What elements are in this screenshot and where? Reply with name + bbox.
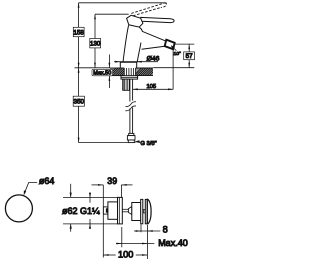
- faucet neck and spout top edge: [139, 27, 166, 41]
- dimension d62 arrows: [70, 184, 72, 198]
- faucet lever blade: [141, 17, 174, 22]
- dimension 158 line: [78, 3, 80, 68]
- counter hatched left: [108, 68, 131, 76]
- wire extension right shared: [146, 225, 148, 259]
- threaded shank in counter: [124, 68, 135, 76]
- hose break symbol: [125, 102, 136, 107]
- wire counter left extension: [75, 67, 111, 69]
- dimension 100: [103, 254, 115, 256]
- faucet handle knob: [127, 15, 143, 27]
- wire extension D62 bottom: [63, 223, 118, 225]
- svg-text:39: 39: [107, 176, 117, 186]
- svg-text:ø64: ø64: [39, 176, 55, 186]
- svg-text:Ø46: Ø46: [147, 55, 160, 62]
- faucet body left edge: [123, 25, 129, 62]
- svg-text:350: 350: [74, 99, 85, 106]
- wire extension D62 top: [63, 196, 118, 198]
- dimension 130 line: [94, 14, 96, 68]
- svg-text:ø62 G1¼: ø62 G1¼: [62, 206, 100, 216]
- dimension D46 arrows: [114, 61, 120, 63]
- label G 3/8" leader: [135, 142, 140, 143]
- rod: [122, 208, 128, 210]
- svg-text:8: 8: [163, 225, 168, 235]
- wire extension 39 left and 100 left: [102, 185, 104, 258]
- wire extension line 130: [95, 13, 129, 15]
- plug plate 1: [141, 199, 143, 223]
- faucet body right edge: [137, 43, 141, 62]
- washer under counter: [121, 76, 138, 79]
- wire extension 39 right: [120, 185, 122, 198]
- wire extension 57 top: [175, 43, 194, 45]
- plug body: [132, 203, 141, 221]
- svg-text:Max.50: Max.50: [93, 71, 111, 77]
- dimension 8: [134, 230, 160, 232]
- wire extension aerator down: [172, 50, 174, 90]
- counter hatched right: [134, 68, 157, 76]
- svg-text:100: 100: [118, 250, 133, 260]
- waste left cap: [103, 207, 108, 214]
- faucet spout underside: [142, 46, 165, 49]
- dimension 350 line: [78, 68, 80, 143]
- svg-text:158: 158: [74, 29, 85, 36]
- label d64 leader: [24, 183, 37, 194]
- waste body: [108, 202, 118, 219]
- base plate: [120, 62, 136, 68]
- wire extension line bottom 350: [79, 142, 136, 144]
- dimension Max.50: [108, 55, 110, 68]
- plug mid square: [144, 209, 146, 213]
- plug plate 2: [145, 199, 147, 223]
- dimension Max.40: [116, 243, 154, 245]
- svg-text:10°: 10°: [174, 51, 181, 57]
- svg-text:Max.40: Max.40: [158, 238, 188, 248]
- rod cone: [128, 207, 131, 215]
- dimension 57 line: [188, 44, 190, 68]
- dimension G1 1/4 arrows: [89, 193, 91, 202]
- waste flange: [118, 197, 123, 224]
- svg-text:G 3/8": G 3/8": [140, 141, 156, 147]
- wire extension line top 158: [79, 2, 167, 4]
- svg-text:105: 105: [146, 84, 156, 90]
- svg-text:57: 57: [186, 53, 193, 60]
- wire extension Max40 left: [121, 227, 123, 247]
- flexible hose: [129, 79, 131, 101]
- pop-up plug top view circle: [5, 195, 32, 222]
- wire extension 8 left: [140, 225, 142, 233]
- aerator: [165, 40, 175, 50]
- threaded tube: [123, 79, 130, 90]
- wire extension 57 bottom: [153, 67, 194, 69]
- svg-text:130: 130: [90, 40, 101, 47]
- faucet lever raised dashed: [129, 3, 167, 17]
- plug cap dome: [146, 199, 148, 224]
- dimension 105: [133, 88, 173, 90]
- hose end connector G 3/8: [129, 133, 134, 135]
